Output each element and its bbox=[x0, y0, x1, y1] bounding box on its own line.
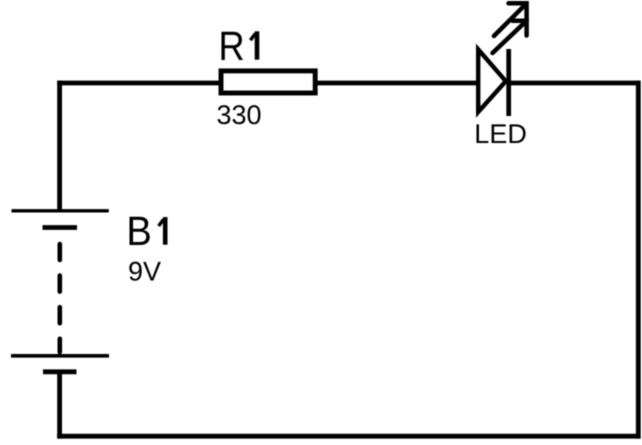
wire left vertical segment bbox=[57, 81, 62, 211]
LED arrow upper bbox=[494, 3, 527, 36]
wire bottom horizontal segment bbox=[57, 434, 640, 439]
wire resistor-to-LED horizontal segment bbox=[316, 81, 481, 86]
svg-text:330: 330 bbox=[217, 100, 262, 130]
svg-text:R: R bbox=[219, 23, 245, 69]
svg-text:B: B bbox=[126, 208, 151, 254]
label B1 bbox=[126, 208, 167, 254]
wire LED-to-corner horizontal segment bbox=[509, 81, 641, 86]
wire battery-to-bottom vertical segment bbox=[57, 372, 62, 439]
battery dashed link bbox=[57, 244, 62, 352]
resistor R1 bbox=[221, 71, 315, 93]
LED diode triangle bbox=[478, 49, 506, 112]
svg-text:9V: 9V bbox=[128, 257, 161, 287]
wire right vertical segment bbox=[636, 81, 641, 439]
svg-text:LED: LED bbox=[474, 119, 527, 149]
battery B1 bottom cell negative plate bbox=[43, 369, 77, 374]
label R1 bbox=[219, 23, 260, 69]
LED arrow lower bbox=[493, 21, 527, 53]
battery B1 bottom cell positive plate bbox=[11, 354, 109, 358]
battery B1 top cell negative plate bbox=[43, 225, 78, 230]
wire top-left horizontal segment bbox=[57, 81, 222, 86]
battery B1 top cell positive plate bbox=[12, 209, 109, 212]
LED cathode bar bbox=[506, 49, 511, 116]
